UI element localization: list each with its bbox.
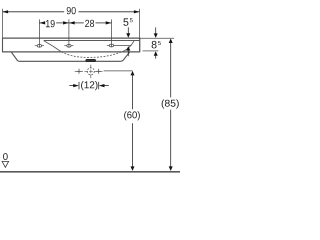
drain crosshair vertical centerline: [90, 65, 92, 79]
dimension 28 line: [69, 22, 84, 24]
dimension 8.5 label: [152, 41, 157, 49]
bowl hidden curve (dashed): [61, 51, 124, 58]
dimension (60) label: [124, 111, 140, 120]
dimension 28 left arrow: [69, 21, 75, 24]
bowl underside protrusion: [11, 52, 130, 61]
dimension 19 label: [46, 20, 55, 27]
drain crosshair horizontal centerline: [75, 70, 104, 72]
fixing hole plus right: [96, 69, 101, 74]
dimension (12) tick right: [98, 82, 100, 89]
bowl front visible curve right: [124, 41, 134, 51]
tap hole 3 with centerline extended right: [107, 44, 131, 47]
dimension (12) left leader and arrow: [69, 85, 73, 87]
datum zero label: [3, 153, 8, 160]
extension line hole3: [111, 19, 113, 47]
washbasin deck second line: [44, 40, 140, 42]
dimension 8.5 upper arrow: [155, 27, 157, 33]
dimension 5.5 label: [123, 18, 128, 25]
dimension (12) right leader and arrow: [104, 85, 109, 87]
extension line left edge above deck: [2, 9, 4, 38]
dimension (12) label: [81, 81, 97, 90]
tap hole 1: [35, 44, 44, 47]
dimension (85) label: [162, 99, 179, 108]
drain height extension line to (60): [104, 70, 133, 72]
tap hole 2: [64, 44, 73, 47]
washbasin right edge: [139, 38, 141, 53]
dimension (85) vertical line: [169, 39, 173, 44]
dimension 19 right arrow: [63, 21, 69, 24]
drain boss capsule: [86, 59, 96, 61]
datum triangle: [2, 161, 9, 167]
dimension 8.5 lower arrow: [154, 51, 158, 56]
dimension (60) vertical line: [131, 71, 135, 76]
dimension 5.5 upper arrow: [127, 27, 129, 33]
washbasin left edge: [2, 38, 4, 53]
dimension 90 label: [67, 7, 76, 14]
dimension 90 line: [3, 11, 65, 13]
dimension 28 label: [85, 20, 94, 27]
fixing hole plus left: [77, 69, 82, 74]
deck top extension line right: [140, 37, 174, 39]
dimension 5.5 lower arrow: [126, 46, 130, 51]
extension line right edge above deck: [139, 9, 141, 38]
dimension (12) tick left: [78, 82, 80, 89]
ground line: [0, 171, 180, 173]
dimension 19 left arrow: [40, 21, 46, 24]
washbasin deck top edge: [2, 37, 140, 39]
bowl front visible curve left: [44, 41, 62, 52]
basin bottom extension line right: [143, 50, 159, 52]
washbasin bottom front edge: [2, 51, 140, 53]
dimension 90 left arrow: [2, 10, 8, 13]
drain crosshair circle: [87, 68, 94, 75]
extension line hole2: [68, 19, 70, 47]
dimension 90 right arrow: [134, 10, 140, 13]
extension line hole1: [38, 19, 40, 47]
dimension 28 right arrow: [106, 21, 112, 24]
dimension 19 line: [39, 22, 44, 24]
